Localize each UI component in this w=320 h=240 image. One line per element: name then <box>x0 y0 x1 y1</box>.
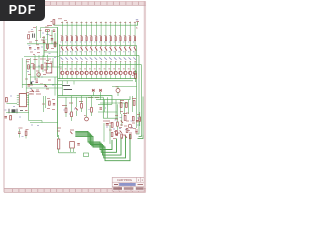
wire <box>7 103 18 105</box>
capacitor C17 <box>136 121 138 122</box>
schematic drawing <box>5 19 144 161</box>
driver column 3: R3,D3,Q3 <box>70 22 74 79</box>
driver column 5: R5,D5,Q5 <box>79 22 83 79</box>
capacitor C11 <box>43 41 45 42</box>
wire <box>103 123 105 142</box>
resistor R28 <box>120 103 122 108</box>
net: array right drops landing <box>138 135 144 139</box>
net: row bus B <box>59 54 139 56</box>
cluster: bus head parts <box>42 30 58 59</box>
cluster: oscillator upper-left <box>24 26 59 57</box>
wire <box>30 122 58 124</box>
wire <box>51 30 53 44</box>
label <box>21 93 26 95</box>
label <box>19 127 23 129</box>
grid net right <box>98 97 117 118</box>
diode D25 <box>120 131 122 133</box>
capacitor C2 <box>37 48 39 49</box>
resistor R20 <box>45 30 49 32</box>
wire <box>75 131 112 149</box>
resistor R17 at bus head <box>47 20 55 26</box>
resistor R44 <box>111 133 113 137</box>
driver column 8: R8,D8,Q8 <box>94 22 98 79</box>
IC U3 <box>19 94 26 107</box>
net: bus bundle to fanout <box>75 131 130 160</box>
label row <box>103 119 141 135</box>
wire <box>47 30 49 50</box>
wire verticals <box>22 55 55 96</box>
wire <box>44 51 58 53</box>
resistor R39 <box>41 65 43 69</box>
resistor R41 <box>121 134 123 138</box>
wire <box>75 134 130 161</box>
resistor R22 <box>28 65 30 69</box>
emitter bus taps <box>62 81 74 96</box>
IC U2 <box>46 64 52 74</box>
wire <box>75 133 116 153</box>
net label box <box>84 153 89 157</box>
frame bottom tick band <box>4 189 146 193</box>
resistor R18 right side <box>132 70 136 82</box>
wire <box>36 26 38 44</box>
net: mid bus 2 <box>58 96 104 98</box>
wire <box>27 43 58 45</box>
label row <box>25 59 53 93</box>
wire <box>43 36 45 57</box>
label row <box>29 93 41 95</box>
resistor R30 <box>133 101 135 106</box>
resistor R27 <box>91 96 93 116</box>
resistor R31 <box>111 123 113 128</box>
resistor R23 <box>33 65 35 69</box>
driver column 6: R6,D6,Q6 <box>84 22 88 79</box>
resistor R40 <box>116 131 118 135</box>
resistor R34 <box>65 97 67 117</box>
resistor R45 <box>126 129 128 133</box>
resistor R26 <box>25 131 27 135</box>
wire <box>54 33 56 48</box>
capacitor C15 <box>53 104 55 105</box>
wire <box>24 56 59 58</box>
capacitor C8 electrolytic <box>57 135 59 153</box>
capacitor C10 <box>77 144 80 146</box>
label marks <box>64 108 107 114</box>
driver column 2: R2,D2,Q2 <box>65 22 69 79</box>
driver column 4: R4,D4,Q4 <box>74 22 78 79</box>
wire <box>29 94 42 121</box>
IC part number dark label <box>63 86 73 90</box>
cluster: control logic mid-left <box>22 55 62 96</box>
net: loop <box>103 103 112 105</box>
driver column 1: R1,D1,Q1 <box>60 22 64 79</box>
supply flag star 2 <box>99 89 102 92</box>
resistor R38 <box>54 42 56 46</box>
resistor R37 <box>47 44 49 48</box>
wire <box>139 135 142 137</box>
net: emitter bus <box>58 78 137 80</box>
pin stubs <box>17 96 29 105</box>
svg-text:CHIP PROG: CHIP PROG <box>117 178 132 182</box>
wire <box>40 28 42 39</box>
driver column 11: R11,D11,Q11 <box>108 22 112 79</box>
wire <box>138 135 144 139</box>
capacitor C16 <box>116 134 118 135</box>
wire <box>75 134 121 155</box>
relay K1 <box>70 142 75 153</box>
wire <box>75 135 125 158</box>
label smudges4 <box>115 112 140 131</box>
resistor R35 <box>71 96 73 121</box>
label smudges <box>28 28 44 55</box>
label row <box>57 128 74 131</box>
resistor R42 <box>129 135 131 139</box>
transistor Q17 right mid <box>116 86 120 96</box>
capacitor C13 <box>36 81 39 82</box>
cluster: aux parts bottom-left <box>18 128 29 139</box>
net: top bus <box>54 22 138 25</box>
wire <box>43 36 45 57</box>
capacitor C1 <box>53 30 55 31</box>
frame left border <box>3 1 5 192</box>
capacitor C4 <box>28 85 31 86</box>
supply flag VCC <box>136 20 139 29</box>
net: right drop 1 <box>136 46 138 100</box>
crystal X1 <box>31 32 35 38</box>
bus start labels <box>58 19 67 21</box>
capacitor C12 <box>51 39 53 40</box>
driver column 16: R16,D16,Q16 <box>133 22 137 79</box>
label smudges2 <box>5 96 40 126</box>
resistor R33 <box>132 117 134 121</box>
frame top tick band <box>4 1 146 5</box>
resistor R46 <box>117 118 119 130</box>
driver column 10: R10,D10,Q10 <box>104 22 108 79</box>
net grid <box>100 96 137 128</box>
capacitor C5 <box>5 117 8 118</box>
label smudges3 <box>109 126 133 139</box>
resistor R21 <box>28 35 30 39</box>
wire <box>18 129 20 132</box>
driver column 7: R7,D7,Q7 <box>89 22 93 79</box>
net: bottom rail <box>59 152 77 154</box>
net: trunk pair <box>59 44 61 79</box>
capacitor C14 <box>135 132 137 133</box>
title block <box>112 177 144 191</box>
crystal X2 <box>9 109 28 113</box>
jumper dark mark <box>31 82 33 85</box>
net: collector return <box>112 86 137 88</box>
resistor R32 <box>124 116 126 121</box>
net <box>96 96 130 99</box>
net: right drop 4 <box>142 97 144 135</box>
capacitor C7 <box>106 124 109 126</box>
driver column 12: R12,D12,Q12 <box>113 22 117 79</box>
diode D20 <box>32 90 35 93</box>
frame right border <box>143 1 145 192</box>
resistor R29 <box>125 103 127 108</box>
resistor R47 <box>139 112 141 126</box>
label smudges <box>42 36 54 60</box>
driver column 9: R9,D9,Q9 <box>99 22 103 79</box>
cluster: right mid parts <box>93 92 140 131</box>
wire <box>6 112 29 114</box>
driver column 14: R14,D14,Q14 <box>123 22 127 79</box>
transistor Q20 <box>37 73 41 77</box>
IC label <box>30 92 40 94</box>
diode D22 <box>70 132 72 135</box>
wire pair down <box>43 96 45 112</box>
wire <box>109 125 111 144</box>
transistor Q21 <box>84 97 88 121</box>
cluster: power section middle <box>58 96 118 121</box>
diode D24 <box>125 136 127 138</box>
net: right drop 3 <box>140 65 142 135</box>
cluster: fanout driver parts <box>103 119 141 144</box>
diode D23 <box>45 85 48 88</box>
wire <box>41 27 58 29</box>
driver column 13: R13,D13,Q13 <box>118 22 122 79</box>
net <box>22 83 62 85</box>
resistor R36 <box>81 96 83 112</box>
capacitor C9 <box>100 108 103 109</box>
value label <box>45 26 49 28</box>
wire <box>25 136 27 139</box>
label row <box>62 98 99 106</box>
capacitor C3 <box>29 48 31 49</box>
net: row bus A <box>59 45 137 47</box>
net <box>26 87 62 89</box>
PDF badge <box>0 0 45 21</box>
label <box>46 34 50 36</box>
net: row bus C <box>59 64 141 66</box>
wire <box>41 121 43 123</box>
label smudges <box>42 99 55 110</box>
wire horizontals <box>28 67 62 77</box>
supply flag star 1 <box>92 89 95 92</box>
label row <box>106 99 136 122</box>
net <box>92 92 94 96</box>
capacitor C6 <box>18 132 21 133</box>
label2 <box>22 136 24 138</box>
net: left trunk vertical <box>57 27 59 137</box>
diode D26 <box>121 114 123 126</box>
transistor Q22 <box>128 124 132 128</box>
resistor R25 <box>10 116 12 120</box>
resistor R43 <box>49 101 51 105</box>
resistor R24 <box>6 98 8 102</box>
cluster: bottom middle parts <box>57 128 80 153</box>
net: mid bus <box>58 96 112 105</box>
driver column 15: R15,D15,Q15 <box>128 22 132 79</box>
cluster: MCU lower-left <box>5 92 58 126</box>
net: emitter bus lower <box>58 80 134 82</box>
diode D21 <box>75 97 77 116</box>
net: right drop 2 <box>136 55 139 134</box>
